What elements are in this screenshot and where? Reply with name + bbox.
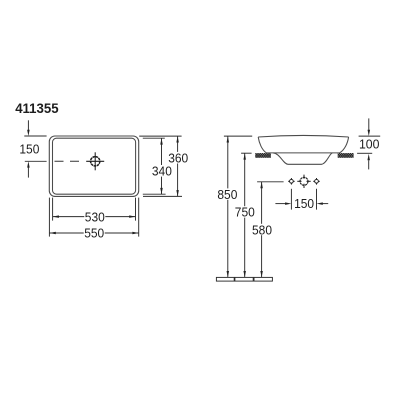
floor line (three tiles) [216, 277, 272, 281]
countertop line through basin (front view) [266, 152, 339, 154]
dimension 150 (hole spacing, front view) [275, 189, 328, 210]
countertop hatch left [255, 153, 271, 158]
basin inner rim (top view) [53, 138, 136, 194]
basin outer rim (top view) [49, 136, 138, 196]
mounting hole left [288, 178, 295, 185]
dimension 580 (front view) [257, 181, 284, 183]
mounting hole right [313, 178, 320, 185]
basin underside (front view) [273, 153, 333, 164]
faucet hole symbol [86, 152, 104, 170]
mounting hole center [297, 175, 310, 188]
dimension 750 (front view) [241, 152, 252, 154]
basin rim arc (front view) [258, 135, 348, 137]
svg-text:340: 340 [152, 164, 172, 179]
dimension 850 (front view) [224, 135, 252, 137]
svg-text:411355: 411355 [15, 101, 58, 117]
dimension 100 (front view right) [357, 118, 380, 169]
svg-text:150: 150 [19, 141, 39, 156]
dimension 360 (top view right outer) [139, 136, 182, 196]
countertop hatch right [338, 153, 354, 158]
svg-text:360: 360 [168, 150, 188, 165]
dimension 340 (top view right inner) [143, 138, 166, 194]
svg-text:150: 150 [294, 196, 314, 211]
basin right side (front view) [340, 137, 349, 153]
svg-text:850: 850 [217, 187, 237, 202]
svg-text:530: 530 [85, 209, 105, 224]
dimension 150 (top view left) [24, 120, 46, 177]
extension lines below basin (top view) [49, 198, 138, 237]
dashed centerline (top view) [55, 160, 80, 162]
svg-text:550: 550 [84, 226, 104, 241]
basin left side (front view) [258, 137, 266, 153]
svg-text:750: 750 [235, 205, 255, 220]
svg-text:100: 100 [359, 137, 380, 152]
dimension 530 (top view bottom inner) [53, 216, 136, 218]
dimension 550 (top view bottom outer) [50, 232, 139, 234]
svg-text:580: 580 [252, 222, 272, 237]
